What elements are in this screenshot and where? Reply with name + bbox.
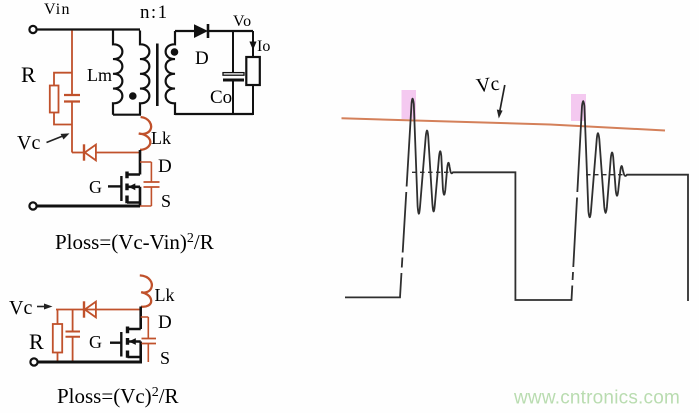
svg-text:S: S bbox=[161, 191, 171, 211]
MOSFET Q2 channel bars bbox=[126, 327, 129, 358]
svg-text:G: G bbox=[89, 177, 102, 197]
dashed settle line burst 2 bbox=[586, 174, 626, 176]
MOSFET Q2 drain lead bbox=[128, 307, 141, 330]
svg-text:Lk: Lk bbox=[151, 128, 171, 148]
resistor R1 (clamp, orange) bbox=[50, 86, 59, 113]
svg-text:R: R bbox=[29, 329, 44, 354]
svg-text:Lk: Lk bbox=[155, 285, 175, 305]
arrow: Vc pointer (bottom) bbox=[37, 306, 46, 308]
MOSFET Q2 gate line bbox=[120, 332, 122, 357]
polarity dot primary bbox=[129, 92, 137, 100]
svg-text:S: S bbox=[160, 348, 170, 368]
wire: R branch top (orange) bbox=[54, 73, 72, 86]
svg-text:Io: Io bbox=[257, 38, 270, 55]
highlight: pink marker 2 bbox=[571, 94, 586, 121]
capacitor Coss2 (orange) bbox=[141, 317, 149, 362]
svg-text:G: G bbox=[89, 332, 102, 352]
arrow: Vc pointer bbox=[47, 136, 65, 143]
wire: top rail bbox=[37, 28, 140, 30]
MOSFET Q1 channel bars bbox=[125, 172, 128, 204]
dash gaps on rising edge 2 bbox=[575, 192, 580, 198]
svg-text:Lm: Lm bbox=[87, 65, 112, 85]
transformer secondary winding bbox=[166, 31, 175, 115]
svg-text:Co: Co bbox=[210, 87, 232, 108]
wire: secondary bottom bbox=[175, 113, 253, 115]
wire: R branch bottom (orange) bbox=[54, 113, 72, 125]
inductor Lk (leakage, orange) bbox=[139, 117, 151, 150]
dashed settle line burst 1 bbox=[412, 171, 452, 173]
terminal: Vin top-left bbox=[29, 26, 36, 33]
resistor R2 (orange) bbox=[53, 324, 62, 353]
diode D3 clamp (orange) bbox=[83, 301, 85, 317]
wire: bottom rail (bottom circuit) bbox=[38, 361, 142, 364]
svg-text:Ploss=(Vc)2/R: Ploss=(Vc)2/R bbox=[57, 384, 179, 408]
wire: clamp vertical lower (orange) bbox=[71, 103, 73, 153]
capacitor Coss (orange) bbox=[140, 162, 151, 206]
transformer primary winding bbox=[140, 31, 149, 115]
highlight: pink marker 1 bbox=[402, 90, 417, 119]
arrow: Vc to line bbox=[500, 85, 505, 111]
wire: bottom rail bbox=[37, 205, 140, 208]
wire: clamp top rail (orange) bbox=[56, 309, 141, 311]
wire: clamp vertical (orange) bbox=[71, 31, 73, 95]
diode D (output rectifier) bbox=[194, 24, 208, 38]
dash gaps on rising edge 1 bbox=[403, 187, 408, 193]
wire: load bottom bbox=[252, 85, 254, 115]
svg-text:n:1: n:1 bbox=[140, 2, 168, 23]
svg-text:D: D bbox=[158, 312, 172, 333]
waveform: drain voltage bbox=[345, 99, 688, 301]
terminal: bottom-left bbox=[29, 202, 36, 209]
transformer core bbox=[156, 44, 159, 107]
MOSFET Q2 body + source leads bbox=[128, 342, 141, 363]
inductor Lm (magnetizing) bbox=[113, 31, 122, 115]
svg-text:Vc: Vc bbox=[17, 132, 40, 154]
inductor Lk2 (orange) bbox=[140, 275, 152, 306]
Vc clamp level line (orange) bbox=[342, 118, 666, 130]
polarity dot secondary bbox=[171, 48, 179, 56]
wire: primary bottom bbox=[113, 114, 141, 116]
terminal: bottom circuit bbox=[30, 358, 37, 365]
capacitor C2 (orange) bbox=[72, 310, 74, 331]
wire: output top bbox=[208, 30, 253, 32]
wire: R branch (orange) bbox=[57, 310, 59, 325]
diode D2 clamp (orange) bbox=[72, 152, 83, 154]
svg-text:D: D bbox=[158, 156, 172, 177]
svg-text:www.cntronics.com: www.cntronics.com bbox=[513, 388, 680, 409]
wire: diode to drain node (orange) bbox=[97, 152, 140, 154]
svg-text:D: D bbox=[195, 48, 209, 69]
MOSFET Q1 body + source leads bbox=[127, 187, 140, 207]
capacitor Co bbox=[232, 31, 234, 72]
svg-text:Vo: Vo bbox=[233, 13, 252, 30]
MOSFET Q2 gate lead bbox=[110, 342, 121, 344]
svg-text:R: R bbox=[21, 62, 36, 87]
svg-text:Vc: Vc bbox=[9, 297, 32, 319]
capacitor C1 (clamp, orange) bbox=[64, 95, 80, 102]
svg-text:Vin: Vin bbox=[44, 1, 71, 18]
wire: R2 bottom (orange) bbox=[57, 353, 59, 363]
MOSFET Q1 gate lead bbox=[108, 185, 121, 187]
svg-text:Ploss=(Vc-Vin)2/R: Ploss=(Vc-Vin)2/R bbox=[55, 230, 214, 254]
MOSFET Q1 gate line bbox=[120, 176, 122, 201]
MOSFET Q1 drain lead bbox=[127, 150, 140, 175]
resistor load bbox=[246, 57, 259, 85]
wire: load branch with Io arrow bbox=[252, 31, 254, 57]
svg-text:Vc: Vc bbox=[475, 73, 501, 98]
wire: secondary top bbox=[175, 30, 194, 32]
